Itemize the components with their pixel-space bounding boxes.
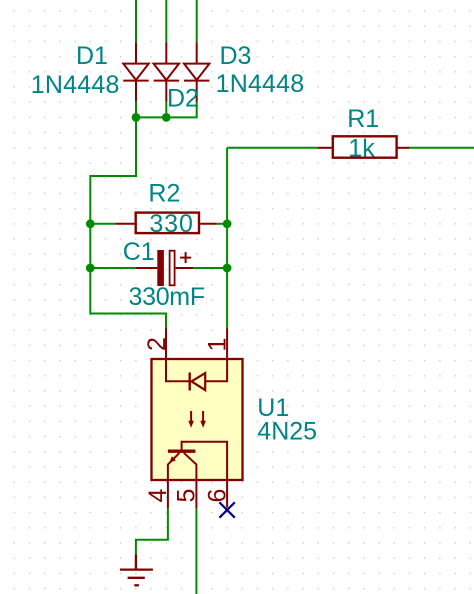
junction right rail R2 row xyxy=(223,219,232,228)
U1 phototransistor base bar xyxy=(168,450,196,453)
diode D1 xyxy=(123,43,148,102)
pin 4 stub xyxy=(167,480,169,509)
svg-text:1: 1 xyxy=(204,338,232,352)
U1 internal LED wire from pin2 xyxy=(166,359,189,381)
ground xyxy=(120,555,153,586)
wire pin 5 to bottom edge xyxy=(195,509,197,594)
capacitor C1 xyxy=(136,250,193,286)
junction left rail R2 row xyxy=(86,219,95,228)
pin 2 stub (red) xyxy=(165,328,167,359)
U1 light arrow 2 xyxy=(200,411,206,428)
junction right rail C1 row xyxy=(223,264,232,273)
wire C1 left xyxy=(90,267,136,269)
diode D3 xyxy=(184,43,209,102)
svg-text:6: 6 xyxy=(203,489,231,503)
pin 5 stub xyxy=(195,480,197,509)
U1 LED cathode bar xyxy=(188,373,190,391)
svg-text:2: 2 xyxy=(143,337,171,351)
wire D2 cathode to junction xyxy=(165,102,167,118)
U1 emitter arrow xyxy=(169,456,176,463)
svg-text:1N4448: 1N4448 xyxy=(216,70,305,98)
resistor R2 xyxy=(115,213,216,234)
wire D1 cathode to junction xyxy=(135,102,137,118)
U1 base lead to pin 6 xyxy=(182,442,228,480)
svg-text:4: 4 xyxy=(144,489,172,503)
pin 6 stub xyxy=(226,480,228,508)
wire junction row horizontal xyxy=(136,116,166,118)
svg-text:5: 5 xyxy=(172,489,200,503)
U1 light arrow 1 xyxy=(188,411,194,428)
junction at D1 xyxy=(132,113,141,122)
wire top 3 (to D3) xyxy=(196,0,198,43)
wire top 1 (to D1) xyxy=(135,0,137,43)
svg-text:1k: 1k xyxy=(348,134,375,162)
wire right rail down to pin1 xyxy=(226,148,228,328)
wire D3 cathode corner to junction xyxy=(166,102,196,118)
C1 plus sign xyxy=(180,252,191,263)
diode D2 xyxy=(154,43,179,102)
op U1 body xyxy=(152,359,243,480)
svg-text:R1: R1 xyxy=(347,105,379,133)
pin 1 stub (red) xyxy=(226,328,228,359)
no-connect X on pin 6 xyxy=(219,502,234,517)
svg-text:D3: D3 xyxy=(220,42,252,70)
U1 collector lead to pin 5 xyxy=(184,453,197,480)
svg-text:D2: D2 xyxy=(167,85,199,113)
svg-text:R2: R2 xyxy=(148,180,180,208)
wire R2 left xyxy=(90,223,115,225)
U1 LED triangle xyxy=(192,373,206,390)
wire C1 right xyxy=(193,267,227,269)
wire R1 left segment xyxy=(227,147,318,149)
resistor R1 xyxy=(318,136,410,157)
svg-text:C1: C1 xyxy=(123,238,155,266)
wire pin 4 to ground xyxy=(136,509,168,555)
svg-text:D1: D1 xyxy=(76,42,108,70)
svg-text:330: 330 xyxy=(149,210,193,238)
svg-text:4N25: 4N25 xyxy=(257,418,317,446)
wire top 2 (to D2) xyxy=(165,0,167,43)
svg-text:330mF: 330mF xyxy=(129,283,205,311)
wire R2 right xyxy=(217,223,227,225)
U1 internal LED wire to pin1 xyxy=(205,359,227,381)
junction left rail C1 row xyxy=(86,264,95,273)
svg-text:1N4448: 1N4448 xyxy=(31,71,120,99)
U1 emitter lead to pin 4 xyxy=(168,453,180,480)
junction at D2 xyxy=(162,113,171,122)
wire R1 right segment to edge xyxy=(409,147,474,149)
wire left rail (junction down, left, down to pin2 corner) xyxy=(90,117,166,328)
